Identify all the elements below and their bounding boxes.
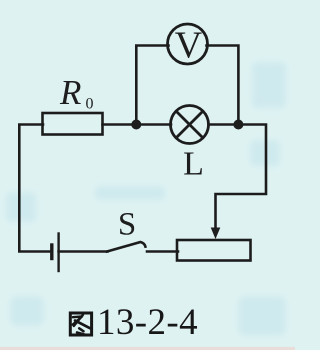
rheostat slider arrow [211, 228, 221, 240]
svg-text:S: S [118, 207, 136, 243]
svg-text:V: V [175, 25, 203, 67]
node junction A (voltmeter left tap) [131, 120, 141, 130]
wire: lamp to right corner, down, jog left, down to slider [209, 125, 267, 231]
voltmeter V meter body [168, 24, 208, 64]
svg-text:R: R [59, 73, 81, 112]
lamp L body [171, 106, 209, 144]
svg-text:L: L [183, 146, 204, 183]
svg-text:13-2-4: 13-2-4 [97, 302, 198, 343]
wire: left loop (top-left, left vertical, bottom to battery) [19, 125, 50, 252]
wire: resistor to lamp [103, 123, 172, 126]
wire: voltmeter left lead [136, 46, 168, 125]
caption glyph 图 (drawn) [70, 313, 91, 335]
wire: voltmeter right lead [207, 46, 239, 125]
wire: switch contact to rheostat [147, 250, 178, 253]
battery cell negative plate [50, 245, 53, 259]
node junction B (voltmeter right tap) [233, 120, 243, 130]
resistor R0 [43, 113, 103, 135]
switch S blade [107, 242, 145, 252]
svg-text:0: 0 [86, 96, 94, 113]
rheostat R body [177, 240, 251, 261]
wire: battery to switch pivot [59, 250, 108, 253]
battery cell positive plate [57, 234, 59, 272]
